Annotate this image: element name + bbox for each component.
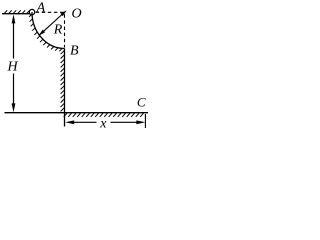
radius arrow R (double-headed) (38, 10, 67, 36)
ground hatching (64, 113, 144, 117)
arc hatching (29, 14, 62, 51)
svg-text:A: A (36, 1, 46, 16)
ceiling line (2, 13, 32, 15)
wall hatching (61, 51, 65, 112)
svg-text:O: O (72, 7, 82, 22)
extension line below C (144, 114, 146, 128)
svg-text:x: x (99, 117, 107, 132)
x dimension left segment with left arrow (65, 120, 96, 124)
svg-text:H: H (7, 60, 19, 75)
dashed line A to O (36, 11, 65, 13)
ball at A (29, 9, 34, 14)
dashed line O to B (64, 14, 66, 47)
svg-text:C: C (137, 95, 146, 110)
svg-text:R: R (53, 23, 63, 38)
wall line B down to ground, extended below as dimension extension (64, 49, 66, 127)
H dimension line lower segment with down arrow (12, 74, 16, 113)
ceiling hatching (4, 10, 30, 13)
quarter-circle arc A to B (32, 12, 65, 48)
x dimension right segment with right arrow (111, 120, 146, 124)
H dimension line upper segment with up arrow (12, 14, 16, 58)
svg-text:B: B (70, 44, 79, 59)
ground line (5, 112, 149, 114)
